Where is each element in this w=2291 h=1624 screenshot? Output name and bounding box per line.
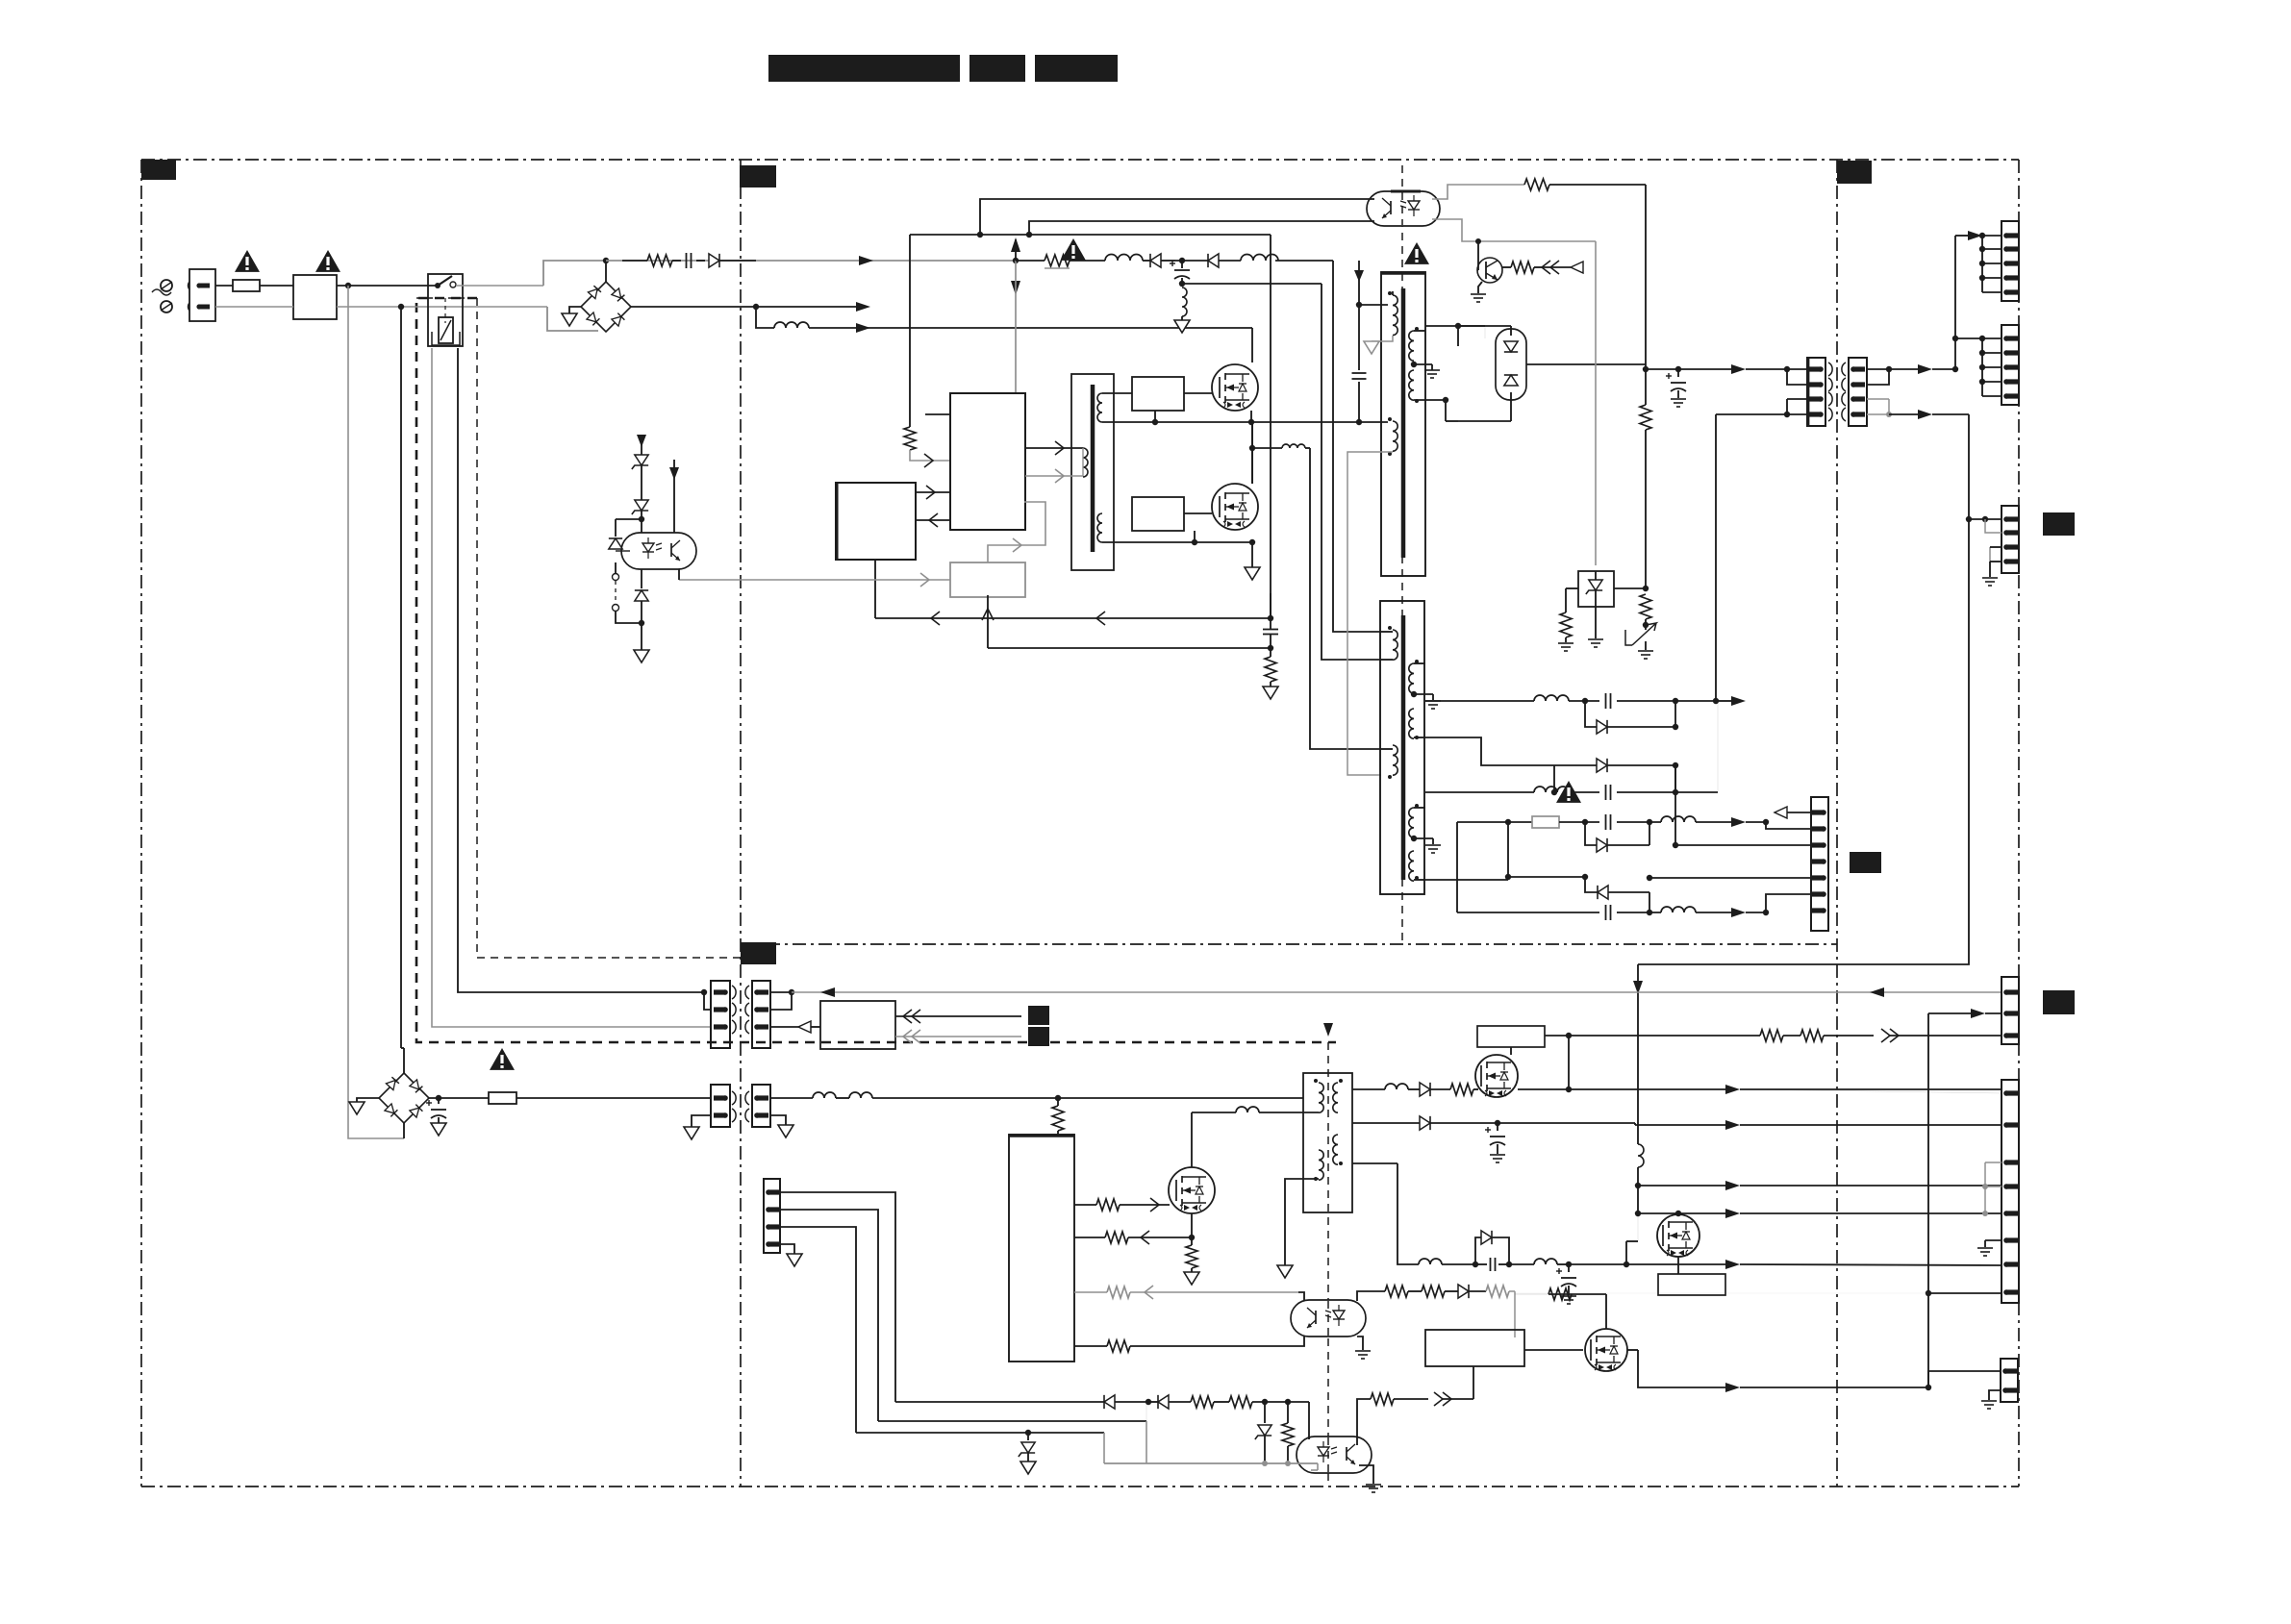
rail C arrow: [856, 323, 870, 333]
warning triangle T1: [1404, 242, 1429, 264]
below opto wires: [616, 562, 642, 623]
sense cap: [1263, 618, 1278, 648]
opto PC1 top bar: [1391, 190, 1421, 193]
resistor rail A: [622, 255, 681, 266]
CN8 wire 1: [780, 1192, 895, 1402]
junction cap node: [1175, 258, 1208, 263]
warning triangle rail A: [1061, 238, 1086, 261]
aux row1 arrow: [1731, 817, 1769, 827]
Q7 out: [1627, 1350, 1931, 1392]
low rail cap2: [1556, 1264, 1576, 1304]
warning triangle fuse: [235, 250, 260, 272]
CN2 left bracket: [704, 992, 711, 1010]
diode D11: [1150, 254, 1175, 267]
board outline bottom border: [141, 1486, 2019, 1487]
Q4 cs wire: [1074, 1231, 1192, 1244]
pot gnd: [1638, 641, 1653, 659]
opto PC1 left wire bottom: [1026, 221, 1374, 237]
T3 outer box: [1303, 1073, 1352, 1212]
connector CN8: [764, 1179, 780, 1253]
dual diode pack D1: [1458, 326, 1526, 400]
Q4 drain link: [1192, 1107, 1319, 1167]
T1 sec tap gnd: [1411, 362, 1440, 378]
Q2 drain vertical: [1251, 422, 1253, 484]
left drop black: [401, 307, 404, 1051]
CN1 right bracket B: [1867, 399, 1892, 417]
AC plug terminal L: [161, 280, 172, 291]
connector pair CN2 left: [711, 981, 730, 1048]
switch relay box: [428, 274, 463, 346]
T1 primary gnd: [1364, 341, 1379, 354]
wire opto feedback into U3: [679, 573, 950, 587]
wire N filter to switch box: [337, 304, 547, 310]
aux row3 diode: [1598, 886, 1649, 912]
Q8 collector out: [1502, 266, 1511, 268]
junction rail A mid: [1013, 258, 1019, 263]
CN7 wiring: [1969, 516, 2001, 586]
board divider horizontal mid: [741, 943, 1837, 945]
wire label redaction 2: [1028, 1027, 1049, 1046]
wire rail C to Q1 drain: [856, 328, 1252, 362]
section marker B: [740, 165, 776, 187]
T3 coil s1: [1333, 1079, 1343, 1112]
driver box B: [1132, 497, 1184, 531]
T4 sec top coil: [1097, 393, 1102, 422]
wire IC1 gate B: [1025, 448, 1083, 483]
board outline right border: [2018, 160, 2020, 1487]
T1 sec coil 1: [1409, 327, 1419, 361]
bottom row 1b: [1148, 1395, 1309, 1409]
rect row3 bracket: [1554, 765, 1597, 792]
connector CN6: [2001, 325, 2019, 405]
low rail inductor: [1419, 1259, 1478, 1267]
drop arrow: [1633, 964, 1643, 1144]
AC plug terminal N: [161, 301, 172, 312]
opto PC3 left wires: [616, 550, 630, 552]
BD2 left gnd: [349, 1098, 379, 1114]
arrow into IC pin: [924, 454, 933, 467]
aux row1 cap: [1606, 814, 1662, 830]
low rail inductor2: [1509, 1259, 1572, 1267]
IC1 to U3 staircase: [988, 502, 1045, 562]
T1 core bar: [1401, 288, 1406, 558]
opto PC2 body: [1291, 1300, 1366, 1337]
T3 coil p: [1314, 1079, 1323, 1112]
D1 bottom feed: [1458, 392, 1511, 421]
T2 primary coil top: [1381, 626, 1397, 660]
MOSFET Q4: [1169, 1167, 1215, 1213]
T3 out 3 rail: [1352, 1163, 1419, 1264]
diode left of opto: [609, 519, 642, 549]
isolation barrier dashed line T3: [1327, 1042, 1329, 1487]
relay enclosure light dashed box: [477, 298, 741, 958]
resistor R31: [1511, 262, 1543, 273]
T1 outer box: [1381, 272, 1425, 576]
wire driver1 to Q1 gate: [1184, 392, 1212, 394]
connector pair CN3 left: [711, 1085, 730, 1127]
board divider between A and B sections: [740, 160, 742, 1487]
Q4 sense gnd: [1184, 1272, 1199, 1285]
rect row1 inductor: [1534, 695, 1599, 704]
rect row3 diode: [1597, 759, 1678, 772]
CN3 left gnd: [684, 1115, 711, 1139]
left drop gray: [348, 286, 404, 1138]
wire L jog up to bridge node: [543, 258, 609, 286]
connector CN11: [2001, 1359, 2018, 1402]
connector CN7: [2001, 506, 2019, 573]
D1 output: [1526, 364, 1646, 369]
warning triangle filter: [315, 250, 340, 272]
Q6 reg box: [1658, 1257, 1725, 1295]
CN6 feed: [1955, 337, 1982, 339]
wire rail A gray: [606, 260, 1016, 262]
IC3 box: [1009, 1135, 1074, 1362]
diode rail A: [709, 254, 756, 267]
T2 sec coil A: [1409, 660, 1419, 693]
wire rail B from bridge: [631, 304, 759, 310]
CN5 bus: [1979, 236, 2001, 292]
reg box U6: [1477, 1026, 1545, 1055]
sense resistor: [1265, 648, 1276, 687]
snubber cap: [1352, 305, 1367, 422]
fusible resistor R10: [1016, 255, 1105, 268]
Q4 source: [1189, 1213, 1195, 1240]
MOSFET Q7: [1585, 1329, 1627, 1371]
driver transformer T4 box: [1071, 374, 1114, 570]
section marker A: [141, 160, 176, 180]
ground choke: [1174, 320, 1190, 333]
CN10 gnd pin: [1977, 1240, 2001, 1256]
long drop right: [1638, 414, 1972, 964]
bridge BD1 ac left stub: [569, 307, 581, 313]
IC3 out low: [1074, 1340, 1298, 1352]
relay coil: [432, 317, 460, 345]
zener ZD1: [632, 455, 648, 500]
CN8 wire 2: [780, 1210, 878, 1421]
MOSFET Q1: [1212, 364, 1258, 411]
standby rail: [770, 1097, 813, 1099]
top rail black: [910, 234, 1271, 236]
connector CN4: [1811, 797, 1828, 931]
Q2 source rail: [1132, 531, 1255, 545]
rect row2 diode: [1597, 698, 1678, 734]
Q2 source corner: [1251, 542, 1253, 567]
wire U2 to IC1: [916, 486, 950, 499]
conn pair CN1 left: [1807, 358, 1825, 426]
opto PC3 collector arrow: [669, 460, 679, 533]
T1 aux left wires: [1347, 452, 1393, 775]
isolation dashes through PC1: [1401, 192, 1403, 225]
rail cap C20: [1666, 369, 1686, 407]
ground bridge left: [562, 313, 577, 326]
inductor rail C: [774, 322, 809, 328]
warning triangle F3: [490, 1048, 515, 1070]
aux conn arrow pin1: [1775, 807, 1811, 818]
sense wire left 2: [988, 645, 1273, 651]
transistor Q8: [1477, 258, 1502, 283]
T1 primary coil: [1359, 291, 1397, 336]
CN3 couplers: [732, 1091, 749, 1122]
left drop switch black: [458, 348, 707, 995]
T2 sec A gnd tap: [1411, 691, 1441, 709]
low rail to conn: [1569, 1260, 2001, 1269]
feedback divider res: [1640, 366, 1651, 588]
board A outline top border: [141, 159, 2019, 161]
PC2 right top: [1357, 1291, 1385, 1301]
zener shunt: [1255, 1402, 1271, 1463]
wire L filter to switch: [337, 283, 438, 288]
wire T4 to driver1: [1102, 392, 1132, 394]
second rail to CN1: [1716, 413, 1787, 415]
CN1 left bracket A: [1787, 369, 1807, 385]
opto PC4 body: [1297, 1437, 1372, 1473]
wire N inlet to filter: [215, 306, 293, 308]
T1 out vert: [1446, 326, 1458, 421]
rail after CN1: [1889, 364, 1958, 374]
wire R20 to IC: [910, 450, 950, 461]
cap C30 plus: [426, 1098, 446, 1136]
T2 core bar: [1401, 615, 1406, 880]
aux vert feed: [1457, 819, 1511, 912]
Q4 gate wire: [1074, 1198, 1170, 1212]
opto PC3 body: [621, 533, 696, 569]
bus riser: [1952, 236, 1958, 369]
relay enclosure heavy dashed box: [416, 298, 1336, 1042]
board A outline left border: [140, 160, 142, 1487]
bottom row 3: [856, 1430, 1104, 1463]
PC2 diode: [1458, 1285, 1515, 1337]
T1 sec out bottom: [1414, 397, 1448, 403]
aux conn feeds: [1647, 765, 1811, 912]
CN3 right gnd: [770, 1115, 793, 1137]
Q7 gate link: [1515, 1294, 1606, 1329]
CN5 feed: [1955, 231, 2001, 240]
connector pair CN2 right: [752, 981, 770, 1048]
startup resistor: [1052, 1098, 1064, 1135]
left drop relay gray: [432, 348, 711, 1027]
T1 primary return gray: [1372, 336, 1393, 341]
Q8 base: [1477, 241, 1478, 270]
standby ac wire: [792, 987, 2001, 997]
section marker label right upper: [2043, 512, 2075, 536]
isolation dashes through PC2: [1327, 1301, 1329, 1336]
lower divider res: [1640, 594, 1651, 630]
T2 primary coil low: [1381, 745, 1397, 779]
cap C11 plus: [1170, 261, 1190, 287]
U5 out wires: [895, 1010, 1021, 1043]
opto PC3 emitter out: [678, 569, 680, 580]
MOSFET Q5: [1475, 1055, 1518, 1097]
conn pair CN1 right: [1849, 358, 1867, 426]
connector CN10: [2001, 1080, 2019, 1303]
rect row4 inductor: [1534, 787, 1599, 795]
Q7 top link: [1605, 1294, 1607, 1329]
T3 out vcc: [1352, 1083, 1478, 1096]
wire label redaction 1: [1028, 1006, 1049, 1025]
U7 bottom drop: [1473, 1366, 1474, 1399]
PC2 left pins: [1298, 1292, 1304, 1346]
Q1 source rail: [1208, 411, 1388, 425]
choke coil vert: [1182, 287, 1187, 320]
section marker label right mid: [2043, 990, 2075, 1014]
line filter box: [293, 275, 337, 319]
connector CN5: [2001, 221, 2019, 301]
D1 top feed: [1458, 326, 1511, 336]
rail2 after CN1: [1889, 410, 1969, 419]
PC2 right resistors: [1385, 1286, 1458, 1297]
T3 coil s2: [1333, 1135, 1343, 1165]
wire rail C cont: [809, 327, 856, 329]
driver box A: [1132, 377, 1184, 411]
Q2 drain up: [1251, 422, 1253, 484]
rail B arrow end: [856, 302, 870, 312]
TL431 left resistor: [1558, 588, 1578, 651]
T2 sec coil C: [1409, 804, 1419, 837]
T1 sec coil 2: [1409, 370, 1419, 403]
trimmer pot: [1625, 623, 1656, 645]
CN6 bus: [1979, 336, 2001, 396]
CN2 out row3: [770, 1021, 820, 1033]
PC4 right collector: [1357, 1392, 1473, 1445]
MOSFET Q6: [1657, 1213, 1699, 1257]
ground zener chain: [634, 623, 649, 662]
Q8 open arrow: [1571, 262, 1583, 273]
U6 right wire: [1569, 1029, 2001, 1042]
CN11 gnd: [1981, 1390, 2001, 1409]
rail 1233: [1638, 1181, 2001, 1190]
wire driver2 to Q2 gate: [1184, 512, 1212, 514]
wire rail B stub: [756, 306, 856, 308]
Q4 sense res: [1186, 1237, 1197, 1272]
U7 to Q7: [1524, 1349, 1583, 1351]
rail A arrow: [859, 256, 873, 265]
snubber vert: [1354, 261, 1364, 308]
title block redaction bar 2: [969, 55, 1025, 82]
feed arrow down: [1011, 261, 1020, 393]
PC4 right emitter: [1359, 1465, 1381, 1492]
standby inductor 1: [813, 1092, 836, 1098]
cap C40 plus: [1485, 1123, 1505, 1162]
TL431 box: [1578, 571, 1614, 607]
isolation barrier dashed line T1 T2: [1401, 165, 1403, 944]
T2 outer box: [1380, 601, 1424, 894]
R30 corner down: [1645, 185, 1647, 364]
T2 sec C out: [1414, 792, 1534, 808]
aux row2 bracket: [1585, 822, 1597, 845]
aux row3 bracket: [1505, 874, 1598, 892]
rail A corner down to T2: [1333, 261, 1381, 632]
below opto contact circles: [613, 574, 619, 612]
Q8 emitter gnd: [1471, 282, 1486, 302]
sense wire left 1: [875, 612, 1273, 625]
MOSFET Q2: [1212, 484, 1258, 530]
rect row1 up to conn: [1715, 414, 1717, 701]
top rail corner down: [909, 235, 911, 427]
aux row1 inductor: [1661, 816, 1731, 822]
T2 primary coil mid connect: [1381, 659, 1393, 661]
CN8 gnd: [780, 1244, 802, 1266]
main rail arrow: [1731, 364, 1790, 374]
T2 sec D out: [1414, 879, 1508, 881]
TL431 right wire: [1614, 586, 1649, 591]
wire IC1 gate A: [1025, 441, 1083, 455]
row2 drop: [1104, 1421, 1146, 1463]
CN8 wire 3: [780, 1227, 856, 1433]
T2 sec A out: [1414, 663, 1534, 701]
rect row4 cap: [1606, 701, 1719, 800]
aux row4 arrow: [1731, 908, 1769, 917]
fuse F1: [233, 280, 260, 291]
bottom box U7: [1425, 1330, 1524, 1366]
CN2 right bracket: [770, 989, 794, 1010]
low rail cap: [1475, 1258, 1512, 1271]
osc box U3: [950, 562, 1025, 597]
relay dashed tie: [444, 298, 446, 323]
IC1 PWM controller box: [950, 393, 1025, 530]
opto PC1 right top: [1432, 185, 1524, 199]
resistor R20 gray: [904, 427, 916, 450]
IC1 stub pin: [925, 413, 950, 415]
T3 coil aux: [1314, 1150, 1323, 1181]
U2 bottom drop: [874, 560, 876, 618]
CN1 left bracket B: [1784, 399, 1807, 417]
wire L switch to jog: [456, 285, 543, 287]
T3 aux return: [1277, 1179, 1319, 1278]
low rail riser: [1626, 1213, 1638, 1264]
standby inductor 2: [836, 1092, 1303, 1101]
bottom gray rail: [1104, 1461, 1318, 1470]
main rail out: [1646, 366, 1731, 372]
T2 sec coil D: [1409, 851, 1419, 881]
res shunt: [1282, 1402, 1294, 1463]
CN2 couplers: [732, 986, 749, 1034]
connector pair CN3 right: [752, 1085, 770, 1127]
BD2 bottom join: [403, 1123, 405, 1138]
series cap rail A: [687, 253, 706, 268]
fuse F3: [489, 1092, 711, 1104]
rect row1 arrow: [1716, 696, 1746, 706]
rail 1262: [1635, 1186, 2001, 1218]
aux row2 diode: [1597, 822, 1649, 852]
T2 sec coil B: [1409, 709, 1419, 739]
board divider between B and C sections: [1836, 160, 1838, 1487]
sense vert top: [1270, 593, 1271, 618]
BD2 out junction: [429, 1095, 489, 1101]
opto PC1 body: [1367, 191, 1440, 226]
resistor R30: [1524, 179, 1646, 190]
opto PC4 led in: [1308, 1402, 1310, 1439]
T4 sec bot coil: [1097, 513, 1102, 542]
section marker C: [1837, 161, 1872, 184]
T2 sec B out: [1414, 737, 1554, 765]
wire IC1 to U2: [916, 513, 950, 527]
zener stack top arrow: [637, 435, 646, 455]
wire L fuse to filter: [260, 285, 293, 287]
TL431 gnd: [1588, 607, 1603, 647]
sense ground: [1263, 687, 1278, 699]
bridge rectifier BD2: [379, 1051, 429, 1123]
sense chain drop: [1270, 235, 1271, 618]
inductor rail A: [1105, 255, 1150, 261]
section marker label mid: [1850, 852, 1881, 873]
T3 out 2: [1352, 1116, 2001, 1130]
wire driver2 in: [1102, 541, 1132, 543]
isolation barrier arrow: [1323, 1023, 1333, 1037]
bottom row 1: [895, 1395, 1151, 1409]
warning triangle aux: [1556, 781, 1581, 803]
diode D12: [1208, 254, 1241, 267]
section marker D: [741, 942, 776, 964]
